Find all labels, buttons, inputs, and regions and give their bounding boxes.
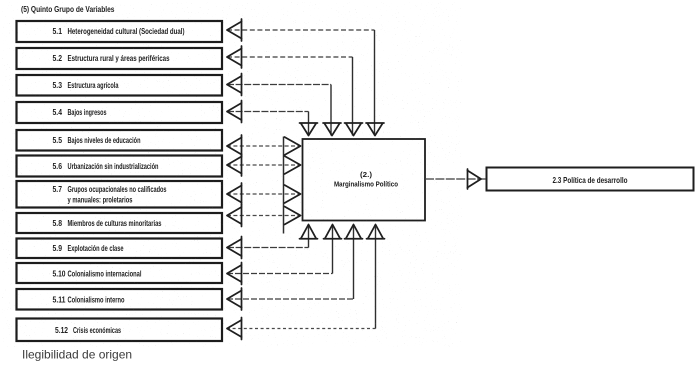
svg-text:2.3 Política de desarrollo: 2.3 Política de desarrollo	[553, 175, 628, 185]
svg-text:Ilegibilidad de origen: Ilegibilidad de origen	[22, 348, 132, 362]
